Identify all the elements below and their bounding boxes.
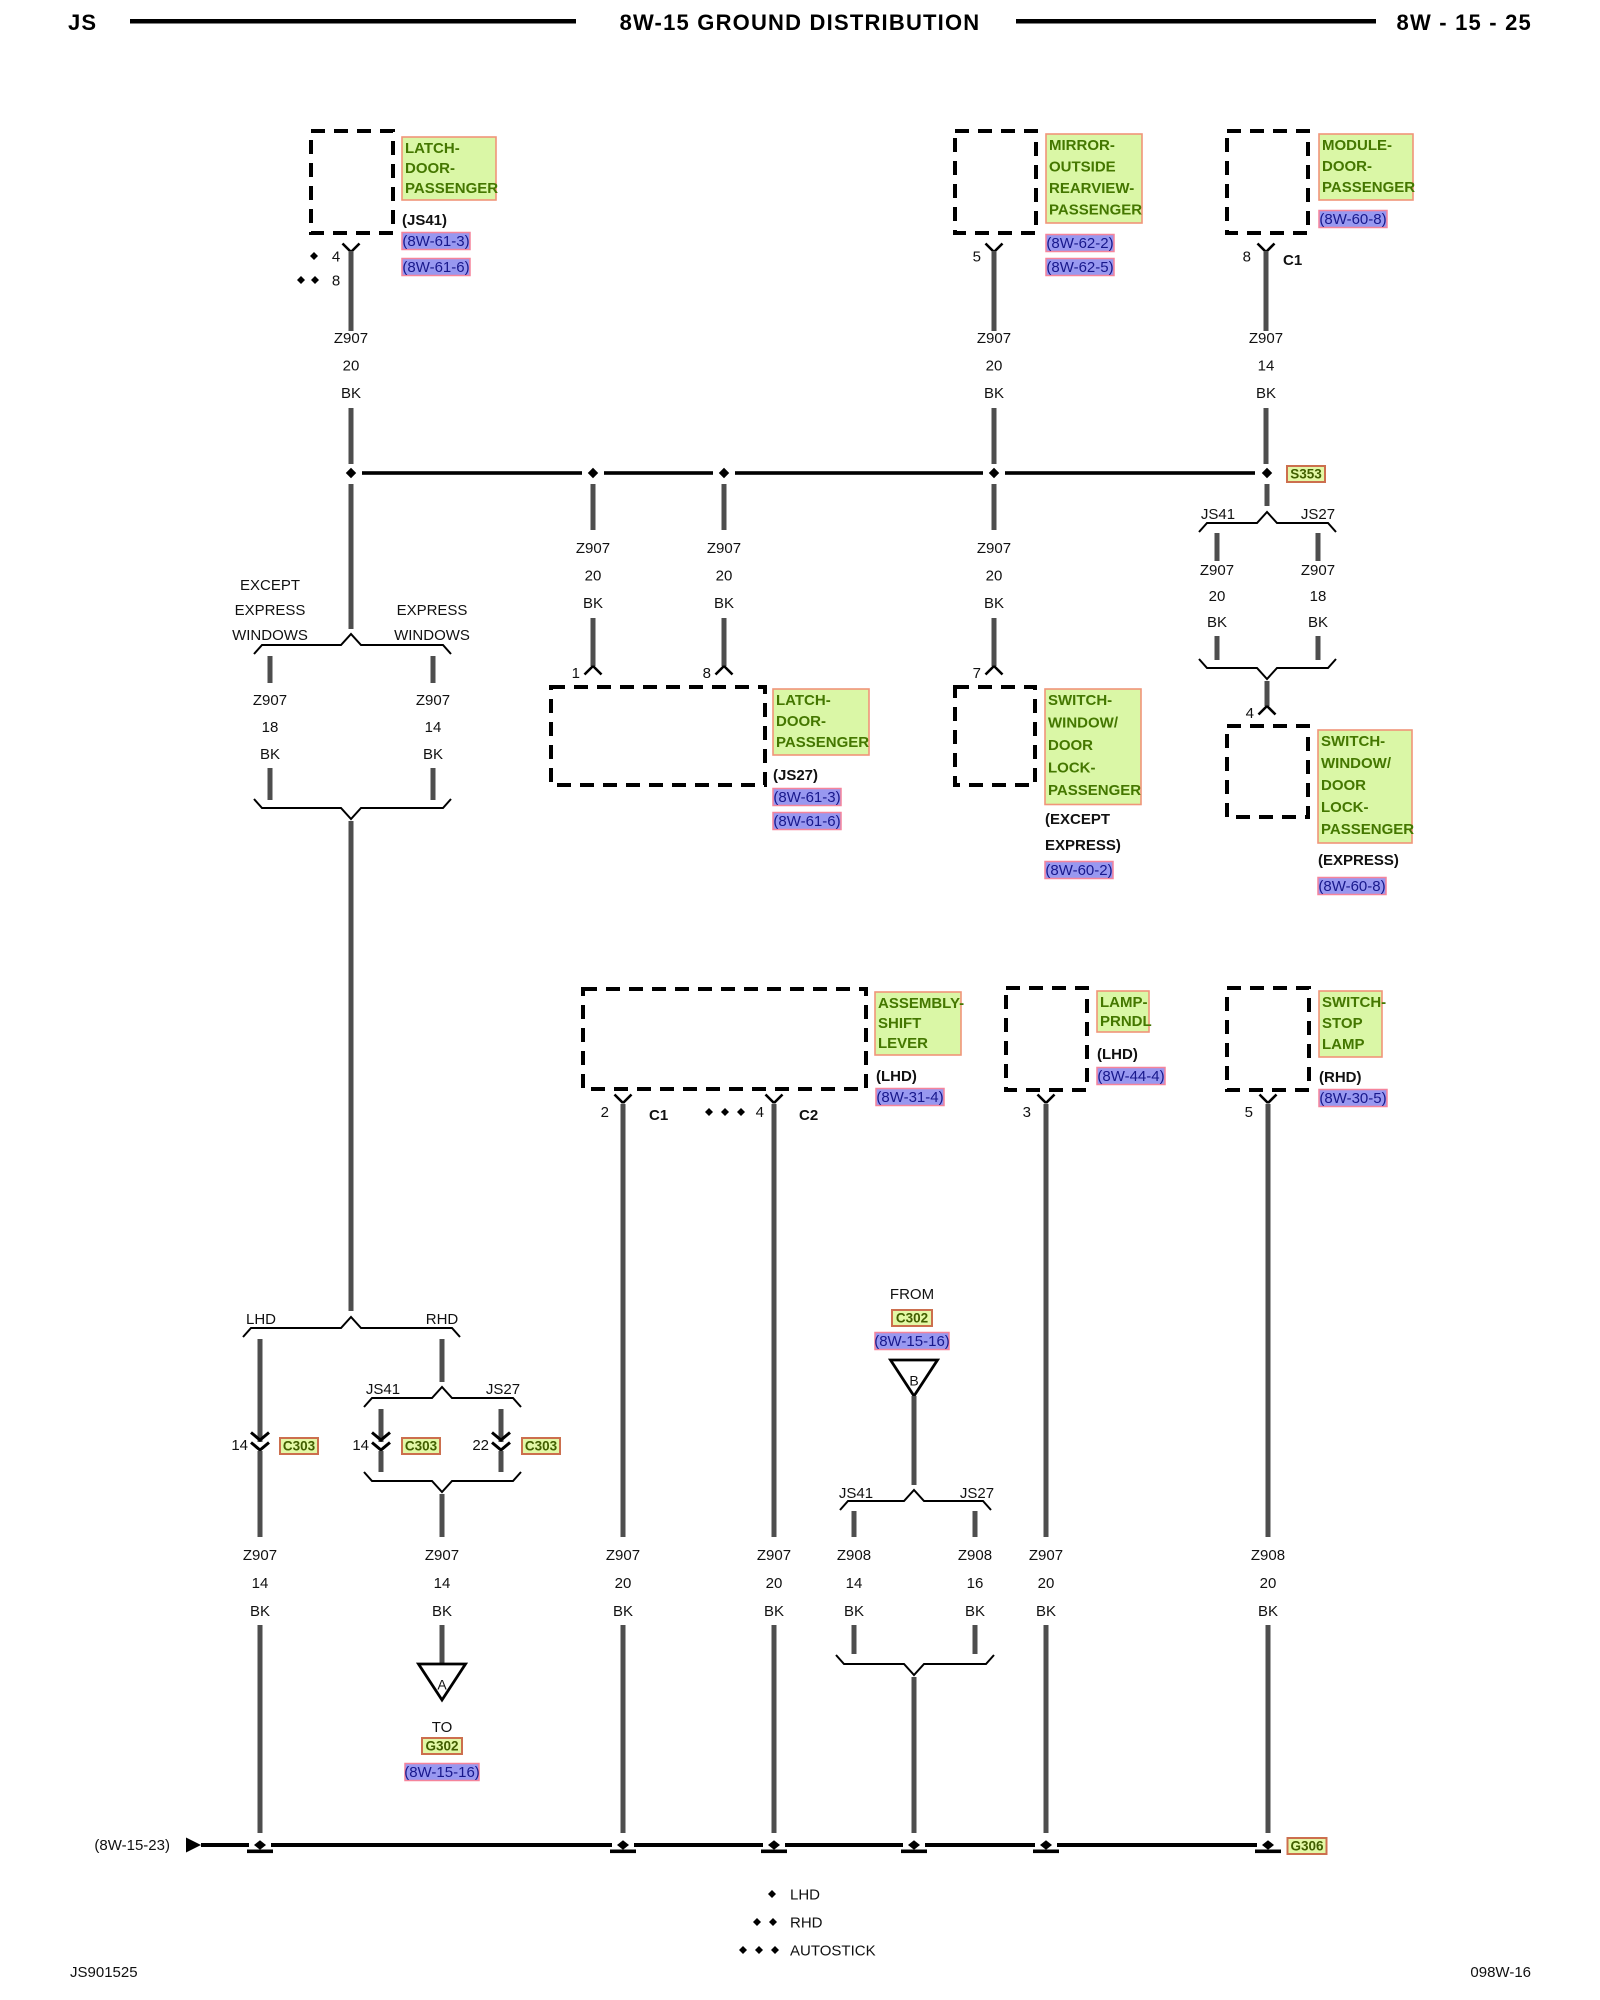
connector mirror-outside-rearview-passenger [955,131,1036,233]
svg-text:PRNDL: PRNDL [1100,1013,1152,1030]
wire from connector B [912,1396,917,1485]
svg-text:DOOR: DOOR [1321,777,1366,794]
svg-text:LAMP-: LAMP- [1100,994,1148,1011]
ground bus G306 [201,1843,1257,1847]
svg-text:SWITCH-: SWITCH- [1322,994,1386,1011]
svg-text:(RHD): (RHD) [1319,1069,1362,1086]
svg-text:EXPRESS: EXPRESS [235,602,306,619]
wire LHD branch [258,1339,263,1442]
svg-text:20: 20 [1209,588,1226,605]
svg-text:8: 8 [332,273,340,290]
label switch-window/door-lock-passenger (express) [1318,730,1414,869]
label Z907 20 BK [977,330,1011,402]
svg-text:(EXCEPT: (EXCEPT [1045,811,1110,828]
wire JS27 below C303 [499,1451,504,1472]
wire JS41 stub [1215,533,1220,561]
label mirror-outside-rearview-passenger [1046,134,1142,223]
connector switch-stop-lamp [1227,988,1309,1090]
svg-text:14: 14 [425,719,442,736]
svg-text:098W-16: 098W-16 [1470,1964,1531,1981]
connector assembly-shift-lever [583,989,866,1089]
wire RHD to connector A [440,1625,445,1665]
label G306 [1288,1838,1327,1854]
label Z907 20 BK [334,330,368,402]
svg-text:14: 14 [352,1437,369,1454]
wire to express switch pin 4 [1265,681,1270,706]
ref 8W-60-8 [1319,211,1387,229]
svg-text:(8W-61-3): (8W-61-3) [773,789,840,806]
svg-text:JS901525: JS901525 [70,1964,138,1981]
svg-text:(EXPRESS): (EXPRESS) [1318,852,1399,869]
svg-text:PASSENGER: PASSENGER [1049,202,1142,219]
brace split JS41/JS27 [1199,506,1336,532]
label G302 [422,1738,462,1754]
ref 8W-61-6 [402,259,470,277]
ref 8W-62-5 [1046,259,1114,277]
wire Z907 20 BK (mirror) [992,251,997,331]
svg-text:Z907: Z907 [253,692,287,709]
brace split LHD/RHD [243,1311,460,1337]
wire JS27 lower stub [973,1625,978,1654]
svg-text:BK: BK [260,746,280,763]
svg-text:BK: BK [965,1603,985,1620]
ref 8W-30-5 [1319,1090,1387,1108]
svg-text:4: 4 [332,249,340,266]
svg-text:MIRROR-: MIRROR- [1049,137,1115,154]
svg-text:Z907: Z907 [707,540,741,557]
connector module-door-passenger [1227,131,1308,233]
svg-text:WINDOWS: WINDOWS [232,627,308,644]
wire express lower stub [431,768,436,800]
svg-text:C302: C302 [896,1311,928,1326]
label Z907 20 BK (C2 wire) [757,1547,791,1620]
label Z907 20 BK [1029,1547,1063,1620]
svg-text:8: 8 [703,665,711,682]
pin 1 terminal [572,665,602,682]
wire RHD branch [440,1339,445,1382]
svg-text:14: 14 [434,1575,451,1592]
page header [68,10,1532,35]
label Z907 20 BK [707,540,741,612]
off-page connector B [891,1360,938,1396]
wire JS41 sub-branch [379,1409,384,1442]
svg-text:OUTSIDE: OUTSIDE [1049,159,1116,176]
svg-text:SHIFT: SHIFT [878,1015,921,1032]
svg-text:JS27: JS27 [960,1485,994,1502]
svg-text:3: 3 [1023,1104,1031,1121]
svg-text:22: 22 [472,1437,489,1454]
pin terminal JS41 [343,244,360,253]
svg-text:MODULE-: MODULE- [1322,137,1392,154]
connector switch-window/door-lock-passenger (except express) [955,687,1035,785]
svg-text:JS27: JS27 [1301,506,1335,523]
brace split JS41/JS27 (C302) [839,1485,994,1510]
label C303 [402,1438,440,1454]
svg-text:(8W-61-6): (8W-61-6) [402,259,469,276]
svg-text:(8W-15-23): (8W-15-23) [94,1837,170,1854]
svg-text:BK: BK [341,385,361,402]
label C302 [892,1310,932,1326]
svg-text:LATCH-: LATCH- [405,140,460,157]
label switch-window/door-lock-passenger [1045,689,1141,854]
svg-text:SWITCH-: SWITCH- [1321,733,1385,750]
svg-text:PASSENGER: PASSENGER [776,734,869,751]
svg-text:Z908: Z908 [837,1547,871,1564]
svg-text:14: 14 [1258,358,1275,375]
svg-text:7: 7 [973,665,981,682]
wire except-express stub [268,656,273,683]
svg-text:LHD: LHD [790,1887,820,1904]
svg-text:5: 5 [1245,1104,1253,1121]
svg-text:20: 20 [343,358,360,375]
svg-text:WINDOWS: WINDOWS [394,627,470,644]
svg-text:RHD: RHD [426,1311,459,1328]
wire LHD to ground bus [258,1625,263,1833]
label Z907 18 BK [253,692,287,763]
svg-text:(JS27): (JS27) [773,767,818,784]
svg-text:EXCEPT: EXCEPT [240,577,300,594]
connector latch-door-passenger (JS27) [551,687,765,785]
svg-text:DOOR-: DOOR- [1322,158,1372,175]
svg-text:LEVER: LEVER [878,1035,928,1052]
label Z907 20 BK (C1 wire) [606,1547,640,1620]
svg-text:(LHD): (LHD) [876,1068,917,1085]
svg-text:(8W-61-3): (8W-61-3) [402,233,469,250]
ref 8W-62-2 [1046,235,1114,253]
wire Z907 20 BK (prndl) [1044,1104,1049,1537]
svg-text:C303: C303 [283,1439,316,1454]
pin 4 terminal C2 with autostick markers [705,1095,818,1125]
svg-text:JS41: JS41 [366,1381,400,1398]
svg-text:Z907: Z907 [425,1547,459,1564]
connector latch-door-passenger (JS41) [311,131,393,233]
svg-text:WINDOW/: WINDOW/ [1048,715,1119,732]
svg-text:FROM: FROM [890,1286,934,1303]
label C303 [280,1438,318,1454]
wire to splice S353 [992,408,997,464]
pin 14 in-line connector C303 (JS41) [352,1433,390,1455]
wire JS27 stub [1316,533,1321,561]
svg-text:2: 2 [601,1104,609,1121]
ref 8W-61-6 [773,813,841,831]
wire Z907 20 BK (JS41 latch) [349,251,354,331]
svg-text:C303: C303 [405,1439,438,1454]
svg-text:(8W-15-16): (8W-15-16) [874,1333,950,1350]
svg-text:LOCK-: LOCK- [1048,760,1096,777]
svg-text:(8W-60-8): (8W-60-8) [1318,878,1385,895]
brace split JS41/JS27 (RHD) [364,1381,521,1407]
pin 22 in-line connector C303 (JS27) [472,1433,510,1455]
svg-text:BK: BK [984,595,1004,612]
wire to splice S353 [349,408,354,464]
splice junction at window switch branch [989,468,999,478]
splice junction at latch branch [346,468,356,478]
svg-text:BK: BK [1308,614,1328,631]
svg-text:Z907: Z907 [606,1547,640,1564]
wire Z908 16 stub (JS27) [973,1511,978,1537]
svg-text:14: 14 [846,1575,863,1592]
label S353 [1287,466,1325,482]
ground splice at C302 branch [901,1840,927,1853]
wire stop lamp to ground bus [1266,1625,1271,1833]
continuation arrow [186,1838,201,1853]
pin 7 terminal [973,665,1003,682]
wire Z908 14 stub (JS41) [852,1511,857,1537]
label switch-stop-lamp [1319,991,1386,1086]
pin 5 terminal [1245,1095,1277,1122]
svg-text:Z907: Z907 [334,330,368,347]
ground splice at shift C1 [610,1840,636,1853]
svg-text:8: 8 [1243,249,1251,266]
svg-text:REARVIEW-: REARVIEW- [1049,180,1134,197]
svg-text:(LHD): (LHD) [1097,1046,1138,1063]
svg-text:WINDOW/: WINDOW/ [1321,755,1392,772]
svg-text:BK: BK [764,1603,784,1620]
splice junction at latch JS27 pin1 branch [588,468,598,478]
wire JS41 lower stub [852,1625,857,1654]
svg-text:BK: BK [1036,1603,1056,1620]
ref 8W-60-8 [1318,878,1386,896]
ground splice at stop lamp [1255,1840,1281,1853]
svg-text:5: 5 [973,249,981,266]
svg-text:(8W-60-8): (8W-60-8) [1319,211,1386,228]
svg-text:AUTOSTICK: AUTOSTICK [790,1943,876,1960]
svg-text:20: 20 [585,568,602,585]
ref 8W-15-16 [404,1764,480,1782]
svg-text:BK: BK [1207,614,1227,631]
svg-text:Z907: Z907 [977,330,1011,347]
ground splice at prndl [1033,1840,1059,1853]
label TO G302 [432,1719,453,1736]
svg-text:C303: C303 [525,1439,558,1454]
splice junction at latch JS27 pin8 branch [719,468,729,478]
svg-text:Z907: Z907 [576,540,610,557]
svg-text:C1: C1 [649,1107,668,1124]
label Z907 14 BK [425,1547,459,1620]
wire JS41 lower stub [1215,636,1220,660]
svg-text:18: 18 [1310,588,1327,605]
label Z908 20 BK [1251,1547,1285,1620]
svg-text:BK: BK [984,385,1004,402]
wire Z907 20 BK stub (pin 7) [992,484,997,530]
off-page connector A [419,1664,466,1700]
svg-text:20: 20 [1038,1575,1055,1592]
wire JS41 below C303 [379,1451,384,1472]
svg-text:DOOR-: DOOR- [405,160,455,177]
svg-text:Z907: Z907 [1249,330,1283,347]
legend LHD [768,1887,820,1904]
svg-text:DOOR: DOOR [1048,737,1093,754]
svg-text:EXPRESS: EXPRESS [397,602,468,619]
wire to window switch pin 7 [992,618,997,666]
ref 8W-61-3 [773,789,841,807]
svg-text:S353: S353 [1290,467,1322,482]
label Z907 14 BK [243,1547,277,1620]
pin 3 terminal [1023,1095,1055,1122]
ref 8W-15-16 [874,1333,950,1351]
legend RHD [753,1915,823,1932]
ref 8W-44-4 [1097,1068,1165,1086]
svg-text:SWITCH-: SWITCH- [1048,692,1112,709]
svg-text:LATCH-: LATCH- [776,692,831,709]
svg-text:(8W-60-2): (8W-60-2) [1045,862,1112,879]
svg-text:(JS41): (JS41) [402,212,447,229]
splice S353 junction [1262,468,1272,478]
wire LHD below C303 [258,1451,263,1537]
svg-text:BK: BK [250,1603,270,1620]
brace split except/express windows [254,634,451,654]
svg-text:14: 14 [252,1575,269,1592]
svg-text:20: 20 [615,1575,632,1592]
brace merge RHD [364,1472,521,1492]
svg-text:(8W-62-2): (8W-62-2) [1046,235,1113,252]
ground splice at LHD wire [247,1840,273,1853]
connector lamp-prndl [1006,988,1087,1090]
svg-text:PASSENGER: PASSENGER [405,180,498,197]
pin 2 terminal C1 [601,1095,669,1125]
svg-text:Z907: Z907 [1301,562,1335,579]
svg-text:1: 1 [572,665,580,682]
label Z907 18 BK [1301,562,1335,631]
svg-text:(8W-30-5): (8W-30-5) [1319,1090,1386,1107]
label Z908 16 BK [958,1547,992,1620]
svg-text:STOP: STOP [1322,1015,1363,1032]
ref 8W-31-4 [876,1089,944,1107]
svg-text:JS: JS [68,10,97,35]
label Z907 20 BK [576,540,610,612]
brace merge windows [254,799,451,819]
wire merged to ground bus [912,1677,917,1833]
pin 4 / pin 8 markers [297,249,340,290]
label latch-door-passenger (JS27) [773,689,869,784]
svg-text:Z908: Z908 [1251,1547,1285,1564]
wire to splice S353 [1264,408,1269,464]
svg-text:B: B [909,1373,918,1389]
svg-text:BK: BK [613,1603,633,1620]
pin 5 terminal [973,244,1003,266]
label Z907 14 BK [1249,330,1283,402]
svg-text:Z908: Z908 [958,1547,992,1564]
ground splice at shift C2 [761,1840,787,1853]
label Z907 14 BK [416,692,450,763]
pin 8 terminal C1 [1243,244,1303,270]
svg-text:PASSENGER: PASSENGER [1321,821,1414,838]
wire C2 branch to ground bus [772,1625,777,1833]
svg-text:BK: BK [1256,385,1276,402]
label except express windows [232,577,470,644]
svg-text:Z907: Z907 [757,1547,791,1564]
svg-text:ASSEMBLY-: ASSEMBLY- [878,995,964,1012]
svg-text:14: 14 [231,1437,248,1454]
svg-text:BK: BK [583,595,603,612]
ref 8W-60-2 [1045,862,1113,880]
svg-text:PASSENGER: PASSENGER [1048,782,1141,799]
pin 8 terminal [703,665,733,682]
svg-text:BK: BK [714,595,734,612]
splice bus S353 horizontal [362,471,1255,475]
svg-text:EXPRESS): EXPRESS) [1045,837,1121,854]
svg-text:A: A [437,1677,447,1693]
connector switch-window/door-lock-passenger (express) [1227,726,1308,817]
svg-text:BK: BK [432,1603,452,1620]
wire to latch JS27 pin 8 [722,618,727,666]
label Z907 20 BK [1200,562,1234,631]
pin 4 terminal [1246,705,1276,722]
wire Z907 20 BK (shift lever C1) [621,1104,626,1537]
svg-text:JS41: JS41 [839,1485,873,1502]
svg-text:LOCK-: LOCK- [1321,799,1369,816]
wire Z907 14 BK (module) [1264,251,1269,331]
label C303 [522,1438,560,1454]
pin 14 in-line connector C303 (LHD) [231,1433,269,1455]
brace merge to express switch [1199,659,1336,679]
svg-text:Z907: Z907 [1200,562,1234,579]
svg-text:(8W-61-6): (8W-61-6) [773,813,840,830]
svg-text:JS41: JS41 [1201,506,1235,523]
label module-door-passenger [1319,134,1415,200]
wire Z907 20 BK (shift lever C2) [772,1104,777,1537]
wire Z907 20 BK stub (pin 8) [722,484,727,530]
wire Z908 20 BK (stop lamp) [1266,1104,1271,1537]
svg-text:16: 16 [967,1575,984,1592]
svg-text:Z907: Z907 [416,692,450,709]
svg-text:18: 18 [262,719,279,736]
svg-text:8W-15 GROUND DISTRIBUTION: 8W-15 GROUND DISTRIBUTION [620,10,981,35]
svg-text:4: 4 [756,1104,764,1121]
svg-text:TO: TO [432,1719,453,1736]
label Z907 20 BK [977,540,1011,612]
svg-text:BK: BK [1258,1603,1278,1620]
svg-text:20: 20 [766,1575,783,1592]
brace merge (C302 branch) [836,1655,994,1675]
svg-text:RHD: RHD [790,1915,823,1932]
ref 8W-61-3 [402,233,470,251]
wire RHD merged [440,1494,445,1537]
wire to latch JS27 pin 1 [591,618,596,666]
svg-text:C1: C1 [1283,252,1302,269]
wire except-express lower stub [268,768,273,800]
wire Z907 20 BK stub (pin 1) [591,484,596,530]
wire stub below S353 [1265,484,1270,506]
svg-text:Z907: Z907 [1029,1547,1063,1564]
label lamp-prndl [1097,991,1152,1063]
svg-text:20: 20 [986,358,1003,375]
svg-text:4: 4 [1246,705,1254,722]
svg-text:20: 20 [716,568,733,585]
svg-text:(8W-62-5): (8W-62-5) [1046,259,1113,276]
svg-text:LAMP: LAMP [1322,1036,1365,1053]
wire JS27 lower stub [1316,636,1321,660]
svg-text:C2: C2 [799,1107,818,1124]
svg-text:(8W-15-16): (8W-15-16) [404,1764,480,1781]
label Z908 14 BK [837,1547,871,1620]
footer plate numbers [70,1964,1531,1981]
legend AUTOSTICK [739,1943,876,1960]
svg-text:Z907: Z907 [243,1547,277,1564]
svg-text:BK: BK [844,1603,864,1620]
svg-text:20: 20 [1260,1575,1277,1592]
wire prndl to ground bus [1044,1625,1049,1833]
label 8W-15-23 continuation [94,1837,170,1854]
svg-text:BK: BK [423,746,443,763]
svg-text:8W - 15 - 25: 8W - 15 - 25 [1397,10,1532,35]
label assembly-shift-lever [875,992,964,1085]
label latch-door-passenger (JS41) [402,137,498,229]
wire main run down to LHD/RHD split [349,821,354,1311]
wire express stub [431,656,436,683]
svg-text:JS27: JS27 [486,1381,520,1398]
svg-text:(8W-31-4): (8W-31-4) [876,1089,943,1106]
